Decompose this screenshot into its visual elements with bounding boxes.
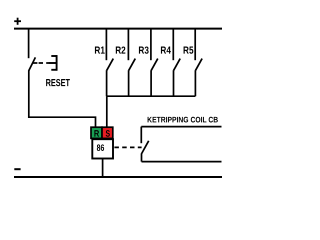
- wire: top positive bus: [14, 28, 222, 30]
- plus terminal label +: [14, 18, 21, 25]
- contact RESET (normally-open blade): [29, 57, 38, 70]
- minus terminal label -: [14, 168, 20, 170]
- indicator square S (red set target): [102, 127, 113, 138]
- svg-text:KETRIPPING COIL CB: KETRIPPING COIL CB: [147, 115, 218, 124]
- contact R5: [195, 29, 202, 97]
- svg-text:S: S: [105, 128, 110, 139]
- svg-text:R: R: [94, 128, 100, 139]
- wire: trip circuit top rail to trip coil: [141, 126, 221, 128]
- relay 86 lockout relay box: [92, 139, 113, 158]
- contact R4: [173, 29, 180, 97]
- wire: join bus collecting R1-R5 contacts: [107, 95, 196, 97]
- dashed mechanical link from 86 to trip contact: [114, 146, 141, 148]
- wire: trip circuit bottom rail to trip coil: [142, 161, 222, 163]
- wire: drop from join bus to relay S terminal: [106, 96, 108, 127]
- contact 86 trip (normally-open): [141, 127, 148, 162]
- contact R3: [151, 29, 158, 97]
- indicator square R (green reset target): [91, 127, 102, 138]
- wire: relay 86 to negative bus: [102, 159, 104, 178]
- svg-text:R4: R4: [160, 46, 171, 57]
- svg-text:86: 86: [97, 143, 105, 153]
- wire: RESET branch down to relay R terminal: [29, 70, 96, 127]
- svg-text:R2: R2: [115, 46, 126, 57]
- dashed mechanical link to RESET button: [39, 62, 49, 64]
- contact R2: [128, 29, 135, 97]
- svg-text:R3: R3: [138, 46, 149, 57]
- wire: RESET branch drop from top bus: [28, 29, 30, 59]
- svg-text:R1: R1: [94, 46, 105, 57]
- svg-text:R5: R5: [183, 46, 194, 57]
- contact R1: [106, 29, 113, 97]
- svg-text:RESET: RESET: [46, 78, 71, 89]
- pushbutton actuator (RESET button head): [49, 55, 58, 70]
- wire: bottom negative bus: [14, 176, 222, 178]
